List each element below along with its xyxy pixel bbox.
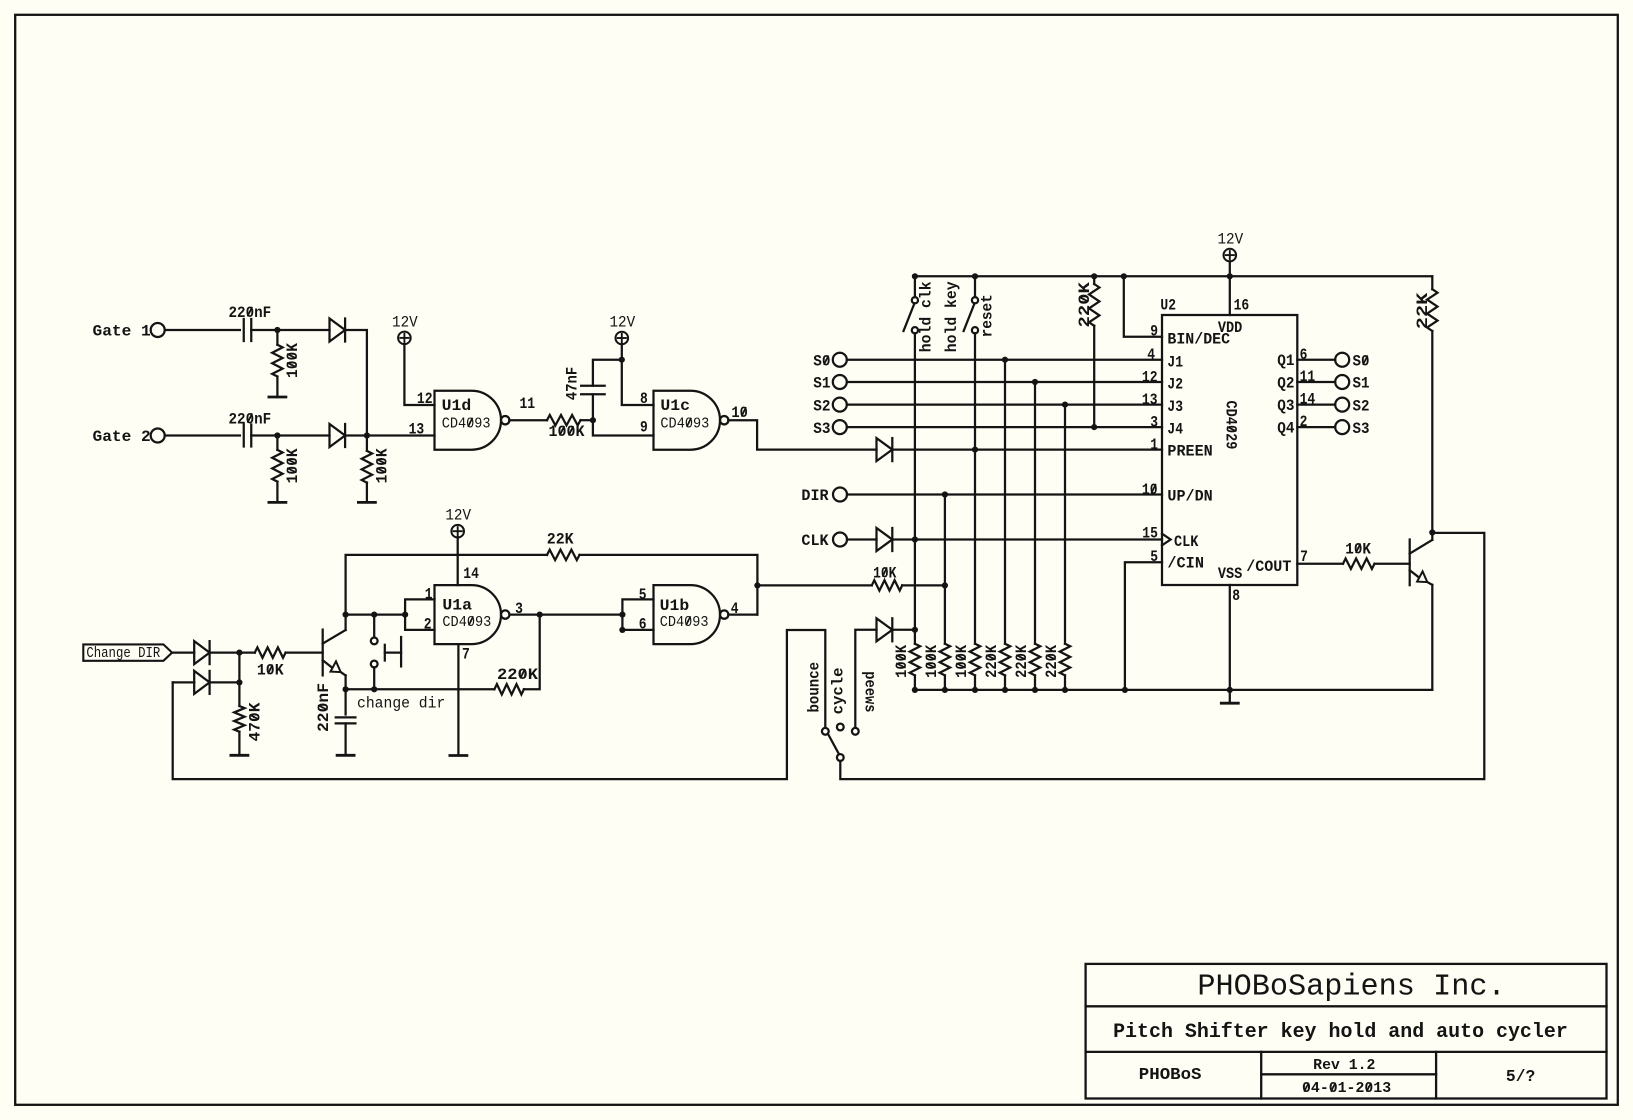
svg-text:S2: S2	[813, 397, 830, 415]
svg-text:J1: J1	[1167, 353, 1183, 371]
junction rail sw1	[912, 273, 918, 279]
wire Q1 collector up	[344, 615, 346, 630]
wire button bottom	[373, 667, 375, 689]
wire R4 to node	[581, 419, 593, 421]
label R5 22K	[547, 531, 574, 549]
pin number 2 U1a	[424, 615, 432, 633]
wire R10 leads	[1093, 276, 1095, 284]
label C4 220nF	[315, 683, 333, 732]
svg-text:U1d: U1d	[442, 397, 472, 415]
pin number 5 U1b	[639, 586, 647, 604]
label R2 100K	[284, 448, 302, 484]
junction rail R12	[942, 687, 948, 693]
pin number 10 U2	[1142, 481, 1158, 499]
wire 220K to emitter node	[346, 688, 495, 690]
power 12V supply U1c label 12V	[609, 314, 635, 332]
svg-text:/CIN: /CIN	[1167, 555, 1204, 573]
junction collector node	[343, 612, 349, 618]
pin number 11 U2	[1300, 368, 1316, 386]
resistor R3 100K	[362, 451, 372, 483]
label S3 input	[813, 420, 830, 438]
pin number 5 U2	[1150, 548, 1158, 566]
pin number 9 U2	[1150, 323, 1158, 341]
label U1d	[442, 397, 472, 415]
wire flag to D3	[172, 651, 194, 653]
svg-text:VSS: VSS	[1218, 565, 1242, 583]
label R18 22K	[1414, 292, 1432, 329]
op-amp U1b CD4093 NAND	[654, 585, 729, 644]
resistor bank R13 100K	[970, 644, 980, 676]
label Gate 2	[93, 428, 151, 446]
svg-text:11: 11	[1300, 368, 1316, 386]
title Rev 1.2	[1313, 1058, 1375, 1074]
wire U1b out	[728, 613, 757, 615]
wire 22K rail left	[346, 555, 547, 615]
wire button top	[373, 615, 375, 638]
svg-text:100K: 100K	[549, 423, 586, 441]
label Q2	[1277, 374, 1294, 392]
label CLK pin	[1174, 533, 1199, 551]
wire 12V to U1a pin14	[457, 537, 459, 585]
svg-text:10K: 10K	[1345, 541, 1371, 559]
wire R17 to Q2 base	[1375, 563, 1410, 565]
wire R1 to ground	[276, 377, 278, 398]
label J2	[1167, 376, 1183, 394]
wire gate1 to C1	[165, 329, 240, 331]
wire Q4 output	[1297, 426, 1335, 428]
label Q1	[1277, 352, 1294, 370]
label U2	[1160, 297, 1176, 315]
resistor R1 100K	[272, 345, 282, 377]
wire S0 drop	[1004, 360, 1006, 644]
svg-text:U1c: U1c	[660, 397, 690, 415]
svg-text:2: 2	[1300, 413, 1308, 431]
wire DIR drop	[944, 495, 946, 644]
svg-text:CD4093: CD4093	[442, 415, 491, 432]
wire bounce long west	[173, 630, 826, 779]
connector S2 input terminal	[833, 398, 847, 412]
junction pushbutton top tap	[371, 612, 377, 618]
label R8 470K	[247, 702, 265, 742]
wire pin13 node to R3	[366, 436, 368, 451]
svg-text:04-01-2013: 04-01-2013	[1302, 1081, 1391, 1097]
wire 12V top rail	[915, 275, 1432, 277]
ground R1	[269, 396, 286, 399]
svg-text:2: 2	[424, 615, 432, 633]
wire D2 to U1d pin13	[345, 434, 434, 436]
wire bank R15 to rail	[1034, 675, 1036, 690]
wire S1 drop	[1034, 382, 1036, 644]
connector S0 output terminal	[1335, 353, 1349, 367]
transistor Q1 NPN	[323, 630, 346, 676]
junction S0 tap	[1002, 357, 1008, 363]
junction R9-DIR	[942, 582, 948, 588]
pin number 14 U1a	[463, 565, 479, 583]
label J4	[1167, 421, 1183, 439]
svg-text:J2: J2	[1167, 376, 1183, 394]
wire R2 to ground	[276, 482, 278, 503]
label J1	[1167, 353, 1183, 371]
wire U1b input bracket	[622, 599, 653, 630]
wire emitter node to cap	[344, 689, 346, 714]
ground R8	[231, 754, 248, 757]
wire node down to R2	[276, 436, 278, 450]
wire R18 to collector	[1431, 331, 1433, 533]
diode D5 sweep	[877, 618, 893, 641]
svg-text:peews: peews	[860, 671, 878, 712]
wire bank R14 to rail	[1004, 675, 1006, 690]
label U1a	[442, 597, 472, 615]
label /CIN	[1167, 555, 1204, 573]
resistor R7 10K	[255, 647, 286, 657]
wire S2 line	[847, 403, 1162, 405]
power 12V supply U1a label 12V	[445, 507, 471, 525]
svg-text:PHOBoSapiens Inc.: PHOBoSapiens Inc.	[1197, 971, 1505, 1005]
wire S0 line	[847, 359, 1162, 361]
title page 5/?	[1506, 1068, 1535, 1087]
wire C2 to node	[251, 434, 329, 436]
svg-text:UP/DN: UP/DN	[1167, 488, 1212, 506]
svg-text:4: 4	[1147, 346, 1155, 364]
wire sw2 top	[974, 276, 976, 297]
label C3 47nF	[563, 367, 581, 401]
label S2 out	[1353, 397, 1370, 415]
pin number 11 U1d out	[520, 395, 536, 413]
op-amp U1a CD4093 NAND	[435, 585, 510, 644]
power 12V supply U1d	[398, 332, 411, 345]
label S1 input	[813, 375, 830, 393]
wire CIN to ground rail	[1125, 562, 1162, 690]
junction rail R15	[1032, 687, 1038, 693]
junction U1b out tap	[754, 582, 760, 588]
label Gate 1	[93, 323, 151, 341]
label U1c	[660, 397, 690, 415]
svg-text:13: 13	[1142, 391, 1158, 409]
title block frame	[1086, 964, 1607, 1099]
svg-text:9: 9	[640, 419, 648, 437]
svg-text:5/?: 5/?	[1506, 1068, 1535, 1087]
label C2 220nF	[229, 410, 272, 428]
pin number 16	[1234, 297, 1250, 315]
label bounce	[806, 662, 824, 713]
label U1b CD4093	[660, 614, 709, 631]
pin number 9 U1c	[640, 419, 648, 437]
svg-text:CD4029: CD4029	[1222, 401, 1240, 450]
svg-text:S0: S0	[1353, 352, 1370, 370]
pin number 14 U2	[1300, 391, 1316, 409]
title company PHOBoSapiens Inc.	[1197, 971, 1505, 1005]
label U1d CD4093	[442, 415, 491, 432]
svg-text:bounce: bounce	[806, 662, 824, 713]
pin number 12 U1d	[417, 390, 433, 408]
title Pitch Shifter key hold and auto cycler	[1113, 1021, 1568, 1044]
wire bank R11 to rail	[914, 675, 916, 690]
connector S0 input terminal	[833, 353, 847, 367]
pin number 8 U2	[1232, 587, 1240, 605]
svg-text:BIN/DEC: BIN/DEC	[1167, 331, 1230, 349]
junction S1 tap	[1032, 379, 1038, 385]
svg-text:11: 11	[520, 395, 536, 413]
svg-text:S1: S1	[813, 375, 830, 393]
pin number 4 U2	[1147, 346, 1155, 364]
junction S3 tap	[1091, 424, 1097, 430]
wire U1a input bracket	[405, 599, 434, 630]
wire D1 to corner	[345, 330, 367, 436]
resistor bank R15 220K	[1030, 644, 1040, 676]
svg-text:change dir: change dir	[357, 695, 445, 713]
op-amp U2 CD4029 IC body	[1162, 315, 1297, 585]
svg-text:9: 9	[1150, 323, 1158, 341]
op-amp U1c CD4093 NAND	[654, 391, 729, 450]
label S3 out	[1353, 420, 1370, 438]
svg-text:Q3: Q3	[1277, 397, 1294, 415]
wire Q2 emitter down	[1431, 585, 1433, 690]
svg-text:U1a: U1a	[442, 597, 472, 615]
pin number 6 U1b	[639, 615, 647, 633]
label S0 input	[813, 352, 830, 370]
wire D5 to clk pulldown	[892, 629, 915, 631]
connector Change DIR flag	[83, 644, 172, 660]
switch SP3T selector	[822, 724, 859, 761]
capacitor C2 220nF	[244, 425, 252, 447]
junction C3-12V node	[619, 357, 625, 363]
wire U1c out to PREEN line	[728, 420, 876, 449]
ground U1a pin7	[450, 754, 467, 757]
label Change DIR	[86, 646, 160, 662]
wire R10 to S3	[1093, 326, 1095, 427]
wire sw1 drop	[914, 333, 916, 643]
resistor bank R12 100K	[940, 644, 950, 676]
svg-text:S3: S3	[813, 420, 830, 438]
svg-text:220K: 220K	[497, 666, 539, 684]
label VSS	[1218, 565, 1242, 583]
wire C3 lower lead	[592, 394, 594, 420]
label cycle	[830, 668, 848, 715]
junction DIR tap	[942, 491, 948, 497]
svg-text:16: 16	[1234, 297, 1250, 315]
ground R3	[358, 501, 375, 504]
svg-text:CLK: CLK	[801, 532, 829, 550]
label R10 220K	[1076, 281, 1094, 327]
svg-text:7: 7	[462, 646, 470, 664]
wire C4 to ground	[344, 723, 346, 754]
pin number 7 U2	[1300, 548, 1308, 566]
svg-text:Q2: Q2	[1277, 374, 1294, 392]
wire 12V to U1c pin8	[622, 344, 654, 405]
wire S3 line	[847, 426, 1162, 428]
junction emitter node	[343, 686, 349, 692]
svg-text:47nF: 47nF	[563, 367, 581, 401]
wire Q1 emitter down	[344, 675, 346, 689]
label bank 100K #3	[953, 644, 971, 678]
wire 22K rail right	[580, 555, 758, 615]
junction button bottom tap	[371, 686, 377, 692]
diode D3	[194, 641, 209, 664]
svg-text:1: 1	[1150, 436, 1158, 454]
label CLK	[801, 532, 829, 550]
label U1b	[660, 597, 690, 615]
transistor Q2 NPN	[1410, 540, 1433, 586]
svg-text:J3: J3	[1167, 398, 1183, 416]
svg-text:100K: 100K	[953, 644, 971, 678]
wire C3 top to 12V node	[593, 360, 622, 386]
ground C4	[337, 754, 354, 757]
svg-text:1: 1	[425, 586, 433, 604]
svg-text:S0: S0	[813, 352, 830, 370]
wire sw2 drop	[974, 333, 976, 643]
diode D2	[330, 424, 346, 447]
svg-text:Q1: Q1	[1277, 352, 1294, 370]
op-amp U1d CD4093 NAND	[435, 391, 510, 450]
junction rail CIN	[1122, 687, 1128, 693]
pin number 15 U2	[1142, 524, 1158, 542]
switch hold clk	[904, 297, 919, 333]
pin number 4 U1b out	[731, 600, 739, 618]
diode D4	[194, 671, 209, 694]
wire D4 to node	[210, 681, 240, 683]
junction rail 220K	[1091, 273, 1097, 279]
power 12V supply U2 label 12V	[1217, 231, 1243, 249]
clock triangle U2 pin15	[1162, 534, 1171, 546]
svg-text:6: 6	[639, 615, 647, 633]
svg-text:12: 12	[417, 390, 433, 408]
label S1 out	[1353, 375, 1370, 393]
svg-text:Gate 1: Gate 1	[93, 323, 151, 341]
junction gate2 node	[274, 432, 280, 438]
label R17 10K	[1345, 541, 1371, 559]
resistor R2 100K	[272, 450, 282, 482]
resistor R10 220K pullup	[1089, 284, 1099, 326]
svg-text:220K: 220K	[1013, 644, 1031, 678]
svg-text:Rev 1.2: Rev 1.2	[1313, 1058, 1375, 1074]
svg-text:hold clk: hold clk	[918, 281, 936, 352]
label BIN/DEC	[1167, 331, 1230, 349]
capacitor C3 47nF	[581, 386, 605, 395]
pin number 1 U1a	[425, 586, 433, 604]
svg-text:5: 5	[639, 586, 647, 604]
label change dir	[357, 695, 445, 713]
wire bank R12 to rail	[944, 675, 946, 690]
diode D7 PREEN	[877, 438, 893, 461]
resistor R18 22K	[1427, 289, 1437, 331]
wire Q1 output	[1297, 359, 1335, 361]
svg-text:7: 7	[1300, 548, 1308, 566]
pin number 7 U1a	[462, 646, 470, 664]
title author PHOBoS	[1139, 1065, 1202, 1084]
label R1 100K	[284, 342, 302, 378]
wire bank R13 to rail	[974, 675, 976, 690]
resistor R8 470K	[234, 706, 244, 732]
wire 10K line	[757, 584, 871, 586]
wire bottomleft riser	[173, 681, 195, 683]
label R9 10K	[873, 564, 897, 582]
connector Gate1 terminal	[151, 323, 165, 337]
capacitor C1 220nF	[244, 319, 252, 341]
wire S1 line	[847, 381, 1162, 383]
svg-text:100K: 100K	[284, 342, 302, 378]
wire bindec feed	[1124, 276, 1162, 337]
wire rail to R18	[1431, 276, 1433, 289]
connector S1 input terminal	[833, 375, 847, 389]
junction CLK tap	[912, 536, 918, 542]
svg-text:reset: reset	[979, 294, 997, 337]
svg-text:15: 15	[1142, 524, 1158, 542]
wire U1a pin7 to ground	[457, 644, 459, 754]
wire Q2 collector up	[1431, 533, 1433, 540]
junction rail sw2	[972, 273, 978, 279]
svg-text:12: 12	[1142, 368, 1158, 386]
label hold key	[943, 281, 961, 352]
wire feedback down	[524, 615, 540, 690]
pin number 13 U1d	[409, 421, 425, 439]
label U1a CD4093	[442, 614, 491, 631]
svg-text:14: 14	[1300, 391, 1316, 409]
wire node to R8	[238, 682, 240, 706]
label DIR	[801, 487, 829, 505]
label U1c CD4093	[660, 415, 709, 432]
junction rail gnd	[1227, 687, 1233, 693]
svg-text:8: 8	[1232, 587, 1240, 605]
wire U1a out to U1b	[511, 613, 622, 615]
power 12V supply U1c	[616, 332, 629, 345]
diode D1	[330, 319, 346, 342]
wire R9 to DIR vertical	[902, 584, 945, 586]
wire Q3 output	[1297, 403, 1335, 405]
svg-text:3: 3	[1150, 414, 1158, 432]
label S2 input	[813, 397, 830, 415]
power 12V supply U1a	[451, 525, 464, 538]
svg-text:22K: 22K	[1414, 292, 1432, 329]
pin number 6 U2	[1300, 346, 1308, 364]
junction Q2 collector	[1429, 529, 1435, 535]
label J3	[1167, 398, 1183, 416]
svg-text:DIR: DIR	[801, 487, 829, 505]
connector DIR terminal	[833, 488, 847, 502]
label R7 10K	[257, 662, 284, 680]
svg-text:U2: U2	[1160, 297, 1176, 315]
junction sweep-clk node	[912, 627, 918, 633]
junction PREEN tap	[972, 447, 978, 453]
svg-text:100K: 100K	[893, 644, 911, 678]
label bank 100K #2	[923, 644, 941, 678]
junction U1b bracket mid	[619, 612, 625, 618]
svg-text:13: 13	[409, 421, 425, 439]
wire diode node link	[238, 653, 240, 683]
resistor bank R14 220K	[1000, 644, 1010, 676]
label Q4	[1277, 419, 1294, 437]
wire sw1 top	[914, 276, 916, 297]
svg-text:12V: 12V	[609, 314, 635, 332]
svg-text:Pitch Shifter key hold and aut: Pitch Shifter key hold and auto cycler	[1113, 1021, 1568, 1044]
title date 04-01-2013	[1302, 1081, 1391, 1097]
junction gate1 node	[274, 327, 280, 333]
svg-text:220K: 220K	[983, 644, 1001, 678]
junction U1a bracket mid	[402, 612, 408, 618]
svg-text:CLK: CLK	[1174, 533, 1199, 551]
svg-text:12V: 12V	[392, 313, 418, 331]
wire R8 to ground	[238, 732, 240, 754]
wire R7 to Q1 base	[286, 651, 323, 653]
wire CLK to D6	[847, 538, 877, 540]
svg-text:hold key: hold key	[943, 281, 961, 352]
wire 12V to U2 pin16	[1229, 261, 1231, 315]
switch hold key / reset	[964, 297, 979, 333]
pin number 2 U2	[1300, 413, 1308, 431]
resistor bank R16 220K	[1060, 644, 1070, 676]
pin number 3 U1a out	[515, 600, 523, 618]
junction rail R16	[1062, 687, 1068, 693]
wire U2 pin8 to rail	[1229, 585, 1231, 690]
